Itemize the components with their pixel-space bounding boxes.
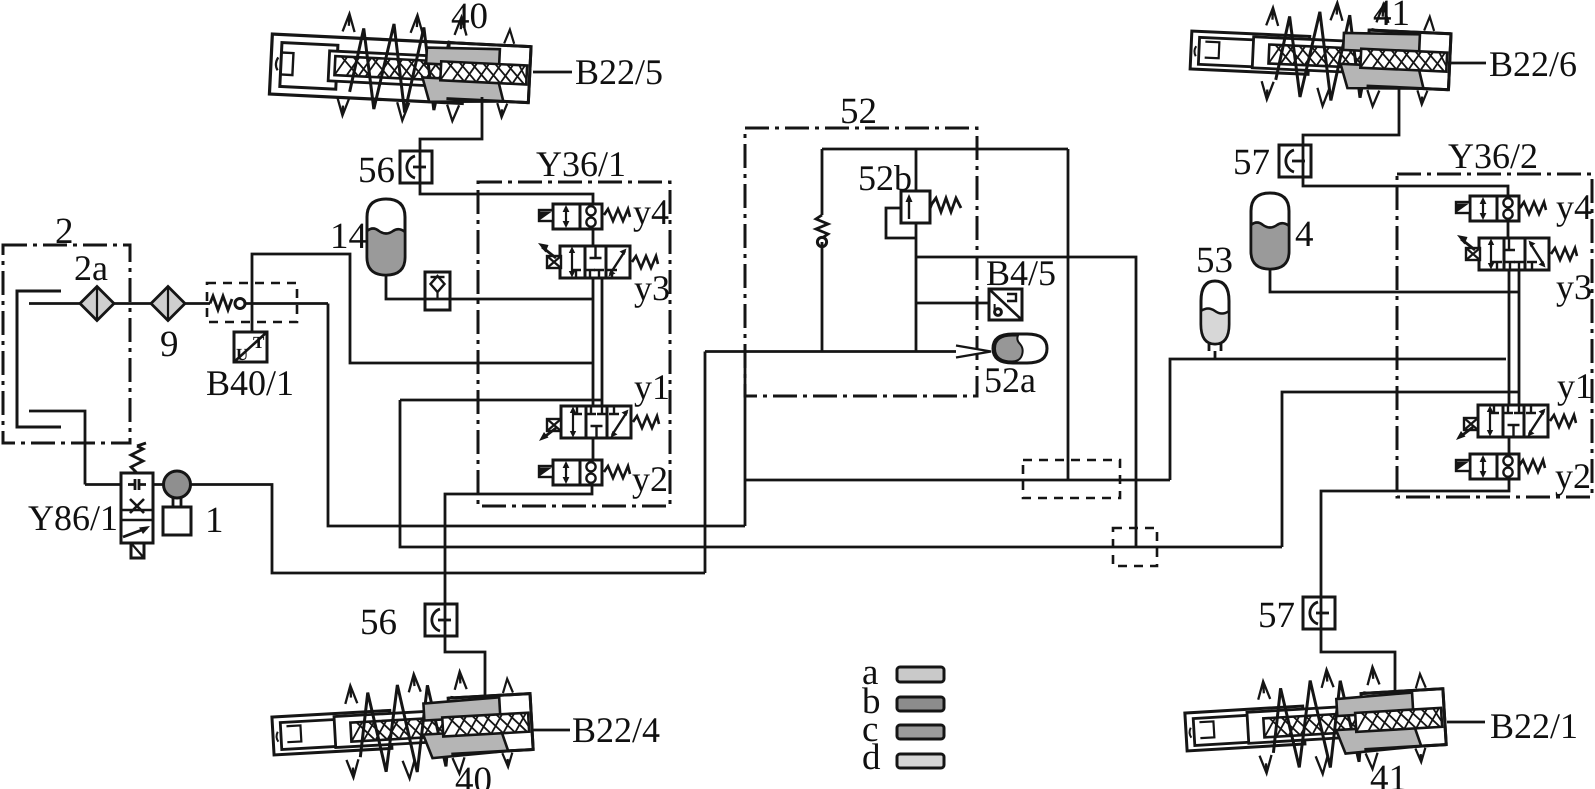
svg-text:B4/5: B4/5 [986,253,1056,293]
supply wire from pump to main line [153,485,705,574]
svg-text:B40/1: B40/1 [206,363,294,403]
wire y4 to y3 [592,229,595,247]
svg-text:52: 52 [840,91,877,132]
coupling 56 bottom [425,604,457,636]
Y86/1 spring [131,443,146,473]
drain wire y2 to coupling 56 bottom [445,485,592,604]
valve y4 right [1470,196,1519,221]
tank return pipe [29,411,85,485]
svg-text:B22/1: B22/1 [1490,706,1578,746]
accumulator 53 [1201,281,1229,351]
svg-text:40: 40 [451,0,488,37]
svg-text:2: 2 [55,211,74,252]
accumulator 52a (horizontal) [993,334,1047,363]
B40/1 sensor drop wire [251,304,254,333]
strut lead line [533,71,572,74]
Y36/2 enclosure [1397,174,1592,497]
pump body 1 [163,507,191,535]
accumulator 4 [1251,193,1289,269]
junction marker dashed box [1023,460,1120,498]
svg-text:y1: y1 [1557,366,1593,406]
wire junction up-over to Y36/1 [252,254,593,363]
relief valve 52b [901,191,930,223]
svg-text:y1: y1 [634,367,670,407]
B40/1 pressure/temp sensor [234,332,267,364]
relief valve 52b feed [915,149,918,191]
left exit riser of block 52 [744,352,747,527]
svg-text:53: 53 [1196,240,1233,281]
wire coupling to strut B22/1 [1321,629,1395,695]
pilot spring branch [821,149,824,352]
damper orifice circle [235,299,245,309]
pressure sensor B4/5 [989,289,1022,320]
legend bar b [897,697,944,711]
wire strut to coupling 56 [420,97,593,204]
wire strut to coupling 57 [1303,88,1508,195]
svg-text:y2: y2 [1555,456,1591,496]
wire 14 to block [386,275,593,299]
svg-text:T: T [253,333,265,352]
drain wire y2 to coupling 57 bottom [1321,479,1509,597]
valve y3 right [1479,238,1549,270]
wire y1 to y2 [1508,437,1511,454]
tank suction pipe [29,302,81,305]
wire 9 to damper [185,302,210,305]
inline damper (spring + orifice) dashed box [207,283,297,322]
legend bar a [897,667,944,682]
svg-text:41: 41 [1370,758,1407,789]
wire y4 to y3 [1507,221,1510,238]
riser from top manifold [1067,149,1070,480]
coupling 57 bottom [1303,597,1335,629]
coupling 56 top [400,151,432,183]
bus riser to Y36/2 [1282,392,1519,547]
strut lead line [1448,62,1486,65]
52b outlet [915,223,918,352]
svg-text:y4: y4 [633,192,669,232]
svg-text:2a: 2a [74,248,108,288]
wire to pump column [328,304,745,527]
valve y3 [560,246,630,278]
svg-text:40: 40 [455,760,492,789]
svg-text:Y36/2: Y36/2 [1448,136,1538,176]
52b pilot loop [886,208,916,238]
Y86/1 shut-off valve [121,473,153,543]
valve y2 right [1470,454,1519,479]
filter 9 [151,287,185,321]
top manifold wire [822,148,1068,151]
svg-text:U: U [236,345,248,364]
wire 53 to line [1214,351,1217,359]
accumulator 53 drop [1170,359,1506,480]
svg-text:56: 56 [360,602,397,643]
suspension strut 40 bottom-left [270,668,534,786]
pilot spring [816,215,828,238]
valve y1 [561,406,631,438]
svg-text:y3: y3 [634,268,670,308]
wire 2a to 9 [114,302,151,305]
wire through coupling 57 [1302,145,1305,177]
svg-text:Y36/1: Y36/1 [536,144,626,184]
legend bar c [897,725,944,739]
svg-text:56: 56 [358,150,395,191]
wire 52b to right riser [916,257,1136,548]
filter 2a [80,287,114,321]
svg-text:1: 1 [205,500,224,541]
legend bar d [897,754,944,768]
svg-text:57: 57 [1233,142,1270,183]
wire through coupling 56 [419,151,422,183]
valve y4 [553,204,602,229]
check valve from accumulator 14 [425,272,450,310]
cross-link wire to right side [745,479,1170,482]
suspension strut 40 top-left [268,8,532,127]
suspension strut 41 top-right [1189,0,1452,112]
svg-text:y3: y3 [1556,267,1592,307]
suspension strut 41 bottom-right [1183,663,1448,782]
pilot orifice circle [817,237,826,246]
svg-text:4: 4 [1295,214,1314,255]
wire through coupling 56 bottom [444,604,447,636]
main pressure bus [400,400,1282,547]
coupling 57 top [1279,145,1311,177]
valve y2 [553,460,602,485]
strut lead line [1447,721,1485,724]
svg-text:y2: y2 [632,459,668,499]
strut lead line [533,729,570,732]
svg-text:52b: 52b [858,158,912,198]
pump stem [173,498,181,507]
52b spring [931,198,961,212]
port wire into block [400,399,602,402]
accumulator 14 [367,199,405,275]
svg-text:Y86/1: Y86/1 [28,498,118,538]
wire y1 to y2 [592,438,595,460]
svg-text:B22/5: B22/5 [575,52,663,92]
enclosure box 2 (dash-dot) [3,245,130,443]
twin risers y3 to y1 [593,278,602,407]
main line into accumulator 52a [705,350,957,353]
hand pump ball 1 [164,471,191,498]
svg-text:41: 41 [1373,0,1410,34]
reservoir tank bracket [17,291,61,427]
svg-text:14: 14 [330,216,367,257]
wire coupling to strut B22/4 [445,636,485,700]
open arrowhead into 52a [956,346,991,358]
svg-text:9: 9 [160,324,179,365]
damper spring [210,296,232,310]
wire through coupling 57 bottom [1320,597,1323,629]
Y36/1 enclosure [478,182,670,506]
svg-text:57: 57 [1258,595,1295,636]
svg-text:B22/4: B22/4 [572,710,660,750]
wire 4 into block [1270,269,1519,292]
svg-text:52a: 52a [984,360,1036,400]
twin risers y3 to y1 [1509,270,1519,405]
wire tank to Y86/1 [85,483,121,486]
wire to sensor B4/5 [916,302,989,305]
enclosure 52 [745,128,977,396]
svg-text:y4: y4 [1556,187,1592,227]
valve y1 right [1478,405,1548,437]
junction marker dashed box 2 [1113,528,1157,566]
svg-text:d: d [862,737,881,778]
wire damper to junction [245,302,328,305]
Y86/1 drain plug [131,543,144,558]
wire supply riser x=705 [704,352,707,574]
svg-text:B22/6: B22/6 [1489,44,1577,84]
